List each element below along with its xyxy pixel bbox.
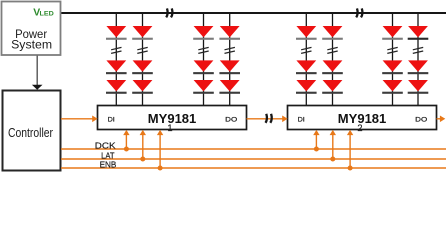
wire ENB tap to U1 <box>157 130 163 168</box>
LED D9 <box>193 80 214 94</box>
LED D10 <box>219 26 240 40</box>
svg-text:DO: DO <box>225 116 237 123</box>
LED D7 <box>193 26 214 40</box>
wire U1 DO to U2 DI <box>247 116 288 123</box>
break mark on LED column 4 <box>225 47 235 53</box>
wire LED string column 7 <box>392 13 394 106</box>
svg-text:System: System <box>11 38 52 52</box>
break mark on U1-U2 wire <box>266 114 272 123</box>
net label VLED <box>33 8 54 19</box>
wire LED string column 2 <box>142 13 144 106</box>
driver IC U2 MY9181 <box>288 106 437 133</box>
LED D11 <box>219 60 240 74</box>
wire VLED top rail <box>61 12 447 14</box>
LED D2 <box>106 60 127 74</box>
LED D15 <box>296 80 317 94</box>
break mark on LED column 8 <box>413 47 423 53</box>
wire LED string column 6 <box>332 13 334 106</box>
break mark on LED column 1 <box>111 47 121 53</box>
LED D8 <box>193 60 214 74</box>
wire LED string column 5 <box>305 13 307 106</box>
wire controller to U1 DI <box>61 116 98 123</box>
LED D12 <box>219 80 240 94</box>
junction dot ENB/U1 <box>158 166 163 171</box>
LED D24 <box>408 80 429 94</box>
LED D17 <box>322 60 343 74</box>
net label LAT <box>101 150 115 160</box>
power supply PS1 "Power System" <box>2 2 61 56</box>
svg-text:DCK: DCK <box>95 140 116 150</box>
wire LED string column 1 <box>115 13 117 106</box>
wire LED string column 8 <box>417 13 419 106</box>
wire DCK tap to U2 <box>313 130 319 149</box>
LED D6 <box>132 80 153 94</box>
wire LAT tap to U2 <box>330 130 336 159</box>
LED D4 <box>132 26 153 40</box>
LED D22 <box>408 26 429 40</box>
wire LAT bus <box>61 158 446 160</box>
net label DCK <box>95 140 116 150</box>
svg-text:LED: LED <box>40 11 55 18</box>
LED D13 <box>296 26 317 40</box>
LED D1 <box>106 26 127 40</box>
svg-text:DI: DI <box>108 116 115 123</box>
LED D23 <box>408 60 429 74</box>
wire LED string column 3 <box>203 13 205 106</box>
wire PS1 to controller <box>32 56 43 90</box>
break mark on LED column 7 <box>387 47 397 53</box>
controller U3 <box>3 91 61 171</box>
junction dot DCK/U1 <box>124 147 129 152</box>
LED D18 <box>322 80 343 94</box>
wire DCK tap to U1 <box>123 130 129 149</box>
break mark on VLED rail (left) <box>166 8 172 17</box>
svg-text:Controller: Controller <box>8 125 54 140</box>
LED D21 <box>382 80 403 94</box>
LED D5 <box>132 60 153 74</box>
junction dot ENB/U2 <box>348 166 353 171</box>
wire ENB bus <box>61 167 446 169</box>
svg-text:DO: DO <box>415 116 427 123</box>
junction dot LAT/U2 <box>330 157 335 162</box>
svg-text:ENB: ENB <box>100 159 117 169</box>
wire DCK bus <box>61 148 446 150</box>
wire LAT tap to U1 <box>140 130 146 159</box>
break mark on VLED rail (right) <box>356 8 362 17</box>
LED D20 <box>382 60 403 74</box>
wire ENB tap to U2 <box>347 130 353 168</box>
break mark on LED column 6 <box>327 47 337 53</box>
svg-text:DI: DI <box>298 116 305 123</box>
LED D16 <box>322 26 343 40</box>
junction dot LAT/U1 <box>140 157 145 162</box>
break mark on LED column 5 <box>301 47 311 53</box>
LED D19 <box>382 26 403 40</box>
driver IC U1 MY9181 <box>98 106 247 133</box>
svg-text:2: 2 <box>357 123 362 133</box>
LED D14 <box>296 60 317 74</box>
junction dot DCK/U2 <box>314 147 319 152</box>
LED D3 <box>106 80 127 94</box>
svg-text:1: 1 <box>167 123 172 133</box>
net label ENB <box>100 159 117 169</box>
wire U2 DO output <box>437 116 446 123</box>
wire LED string column 4 <box>229 13 231 106</box>
break mark on LED column 3 <box>198 47 208 53</box>
break mark on LED column 2 <box>137 47 147 53</box>
